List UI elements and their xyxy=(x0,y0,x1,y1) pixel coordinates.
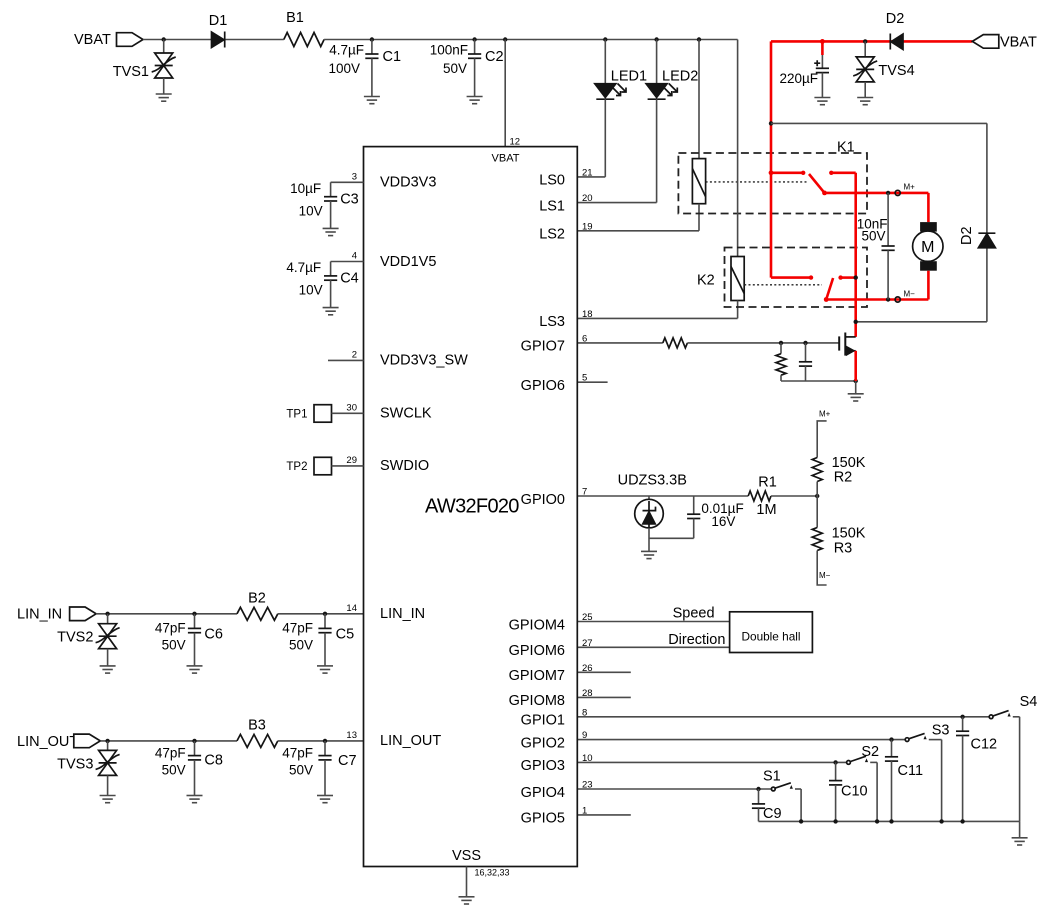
gate capacitor xyxy=(799,343,812,381)
svg-text:VSS: VSS xyxy=(452,848,481,864)
svg-text:VBAT: VBAT xyxy=(1000,35,1037,51)
net label M- (motor) xyxy=(904,289,916,298)
svg-text:26: 26 xyxy=(582,663,593,674)
LED LED2 xyxy=(646,40,698,203)
wire LS0 pin21 xyxy=(577,176,605,178)
wire RC to source xyxy=(781,379,858,383)
svg-text:Direction: Direction xyxy=(668,632,725,648)
svg-text:10: 10 xyxy=(582,753,593,764)
svg-text:19: 19 xyxy=(582,221,593,232)
svg-text:47pF: 47pF xyxy=(155,621,186,636)
wire GPIO1 pin8 xyxy=(577,715,988,719)
svg-text:Speed: Speed xyxy=(673,606,715,622)
svg-text:LIN_IN: LIN_IN xyxy=(17,607,62,623)
svg-text:VDD3V3_SW: VDD3V3_SW xyxy=(380,353,468,369)
svg-text:D1: D1 xyxy=(209,13,228,29)
gate resistor xyxy=(663,338,688,348)
svg-text:12: 12 xyxy=(510,137,521,148)
svg-text:50V: 50V xyxy=(861,228,885,243)
svg-text:20: 20 xyxy=(582,193,593,204)
svg-text:S2: S2 xyxy=(861,744,879,760)
svg-text:SWCLK: SWCLK xyxy=(380,406,432,422)
svg-text:50V: 50V xyxy=(443,61,467,76)
IC pin VBAT label xyxy=(492,153,520,165)
svg-text:GPIO4: GPIO4 xyxy=(521,785,565,801)
svg-text:AW32F020: AW32F020 xyxy=(425,496,519,518)
wire VDD3V3_SW pin2 stub xyxy=(328,359,364,361)
connector J-VBAT right xyxy=(972,35,1037,51)
svg-text:TVS3: TVS3 xyxy=(57,757,93,773)
Double hall sensor xyxy=(730,612,813,653)
ground (TVS3) xyxy=(100,796,116,803)
svg-text:GPIO2: GPIO2 xyxy=(521,735,565,751)
ground (C4) xyxy=(323,308,339,315)
switch S3 xyxy=(905,723,949,822)
resistor R1 xyxy=(748,475,777,519)
ground (MOSFET) xyxy=(848,394,864,401)
K2 NC contact xyxy=(838,275,858,279)
svg-text:C4: C4 xyxy=(340,271,359,287)
TVS diode TVS1 xyxy=(113,40,176,95)
wire B2 to C5 xyxy=(278,612,364,616)
gate pulldown resistor xyxy=(776,343,786,381)
svg-text:TVS1: TVS1 xyxy=(113,64,149,80)
svg-text:TP1: TP1 xyxy=(286,409,307,421)
IC pin 12 number xyxy=(510,137,521,148)
svg-text:M+: M+ xyxy=(819,410,831,419)
net label LIN_IN xyxy=(17,607,62,623)
svg-text:4.7µF: 4.7µF xyxy=(286,260,321,275)
svg-text:C2: C2 xyxy=(485,49,504,65)
svg-text:Double hall: Double hall xyxy=(741,630,800,644)
IC left pin numbers xyxy=(346,171,357,741)
wire to D2 branch xyxy=(769,121,987,125)
svg-text:6: 6 xyxy=(582,333,587,344)
svg-text:16,32,33: 16,32,33 xyxy=(475,868,510,878)
svg-text:GPIO3: GPIO3 xyxy=(521,758,565,774)
capacitor C3 xyxy=(290,181,363,228)
svg-text:D2: D2 xyxy=(886,11,905,27)
wire gate xyxy=(687,341,839,345)
svg-text:C3: C3 xyxy=(340,191,359,207)
K1 switch arm xyxy=(809,174,827,195)
svg-text:10µF: 10µF xyxy=(290,181,321,196)
K1 output wire to M+ xyxy=(825,190,929,195)
svg-text:M: M xyxy=(921,239,934,256)
ground (rail) xyxy=(1012,838,1028,845)
svg-text:50V: 50V xyxy=(289,763,313,778)
test point TP1 xyxy=(286,405,363,423)
capacitor C12 xyxy=(956,717,997,822)
IC left pin labels xyxy=(380,175,468,750)
svg-text:K2: K2 xyxy=(697,273,715,289)
IC pin VSS label xyxy=(452,848,481,864)
TVS diode TVS3 xyxy=(57,741,119,796)
wire GPIO2 pin9 xyxy=(577,737,904,741)
wire LS3 pin18 xyxy=(577,317,737,319)
wire GPIOM7 pin26 stub xyxy=(577,671,631,673)
svg-text:47pF: 47pF xyxy=(282,621,313,636)
svg-text:LED2: LED2 xyxy=(662,69,698,85)
LED LED1 xyxy=(595,40,647,177)
wire GPIO4 pin23 xyxy=(577,787,771,791)
IC U1 AW32F020 body xyxy=(364,147,578,867)
wire GPIO7 pin6 xyxy=(577,342,663,344)
net label LIN_OUT xyxy=(17,734,78,750)
svg-text:1M: 1M xyxy=(756,502,776,518)
svg-text:GPIOM7: GPIOM7 xyxy=(509,668,565,684)
svg-text:14: 14 xyxy=(346,603,357,614)
svg-text:K1: K1 xyxy=(837,140,855,156)
svg-text:TP2: TP2 xyxy=(286,461,307,473)
capacitor 0.01uF xyxy=(687,496,744,538)
relay K2 box xyxy=(697,248,867,308)
svg-text:2: 2 xyxy=(352,349,357,360)
switch S2 xyxy=(847,744,880,821)
svg-text:C12: C12 xyxy=(971,737,998,753)
svg-text:C5: C5 xyxy=(336,627,355,643)
svg-text:7: 7 xyxy=(582,487,587,498)
svg-text:C10: C10 xyxy=(841,784,868,800)
svg-text:29: 29 xyxy=(346,455,357,466)
svg-text:100V: 100V xyxy=(328,61,360,76)
svg-text:8: 8 xyxy=(582,707,587,718)
svg-text:C11: C11 xyxy=(898,763,924,779)
wire D2 to drain xyxy=(854,320,987,324)
K1 mech link xyxy=(706,181,808,183)
svg-text:150K: 150K xyxy=(832,525,866,541)
svg-text:S1: S1 xyxy=(763,769,781,785)
capacitor 10nF xyxy=(857,193,895,300)
zener UDZS3.3B xyxy=(618,472,687,551)
wire GPIOM6 pin27 xyxy=(577,632,729,648)
wire VSS xyxy=(467,867,510,897)
svg-text:18: 18 xyxy=(582,309,593,320)
resistor R2 xyxy=(812,410,866,497)
red wire to motor top xyxy=(927,193,930,222)
svg-text:LIN_IN: LIN_IN xyxy=(380,606,425,622)
ground (C6) xyxy=(187,666,203,673)
ground (C3) xyxy=(323,228,339,235)
ground (VSS) xyxy=(459,897,475,904)
K1 common contact xyxy=(771,171,805,175)
ground (TVS2) xyxy=(100,666,116,673)
net label M+ (motor) xyxy=(904,183,916,192)
svg-text:150K: 150K xyxy=(832,455,866,471)
capacitor 220uF xyxy=(779,41,829,97)
svg-text:220µF: 220µF xyxy=(779,71,818,86)
ground (C2) xyxy=(467,97,483,104)
svg-text:13: 13 xyxy=(346,730,357,741)
red wire source xyxy=(854,351,857,381)
svg-text:LS2: LS2 xyxy=(539,227,565,243)
capacitor C4 xyxy=(286,260,363,307)
svg-text:C1: C1 xyxy=(383,49,402,65)
svg-text:C9: C9 xyxy=(763,806,782,822)
svg-text:TVS4: TVS4 xyxy=(878,63,914,79)
svg-text:4.7µF: 4.7µF xyxy=(329,43,364,58)
svg-text:47pF: 47pF xyxy=(282,746,313,761)
svg-text:GPIO7: GPIO7 xyxy=(521,339,565,355)
svg-text:S4: S4 xyxy=(1020,694,1038,710)
svg-text:R2: R2 xyxy=(834,470,853,486)
wire LIN_OUT xyxy=(100,739,237,743)
red vertical to relays xyxy=(769,41,814,279)
svg-text:GPIOM6: GPIOM6 xyxy=(509,643,565,659)
red vertical B (drain net) xyxy=(854,173,857,337)
svg-text:GPIO1: GPIO1 xyxy=(521,713,565,729)
capacitor C5 xyxy=(282,614,354,666)
ground (zener) xyxy=(641,551,657,558)
svg-text:4: 4 xyxy=(352,251,357,262)
svg-text:VDD3V3: VDD3V3 xyxy=(380,175,436,191)
svg-text:10V: 10V xyxy=(299,203,323,218)
capacitor C10 xyxy=(829,762,868,821)
capacitor C1 xyxy=(328,40,401,97)
capacitor C7 xyxy=(282,741,356,796)
svg-text:B3: B3 xyxy=(248,718,266,734)
capacitor C11 xyxy=(885,740,923,822)
svg-text:VDD1V5: VDD1V5 xyxy=(380,254,436,270)
ground (TVS4) xyxy=(857,98,873,105)
wire GPIOM4 pin25 xyxy=(577,606,729,622)
ground (220uF) xyxy=(814,98,830,105)
svg-text:3: 3 xyxy=(352,171,357,182)
svg-text:GPIOM4: GPIOM4 xyxy=(509,617,565,633)
svg-text:23: 23 xyxy=(582,780,593,791)
relay K1 coil xyxy=(692,40,705,231)
svg-text:10V: 10V xyxy=(299,283,323,298)
wire LS1 pin20 xyxy=(577,202,656,204)
diode D2 (series) xyxy=(886,11,905,50)
net label VBAT (left) xyxy=(74,32,111,48)
svg-text:VBAT: VBAT xyxy=(74,32,111,48)
svg-text:VBAT: VBAT xyxy=(492,153,520,165)
capacitor C9 xyxy=(752,789,782,822)
svg-text:50V: 50V xyxy=(162,638,186,653)
ferrite bead B3 xyxy=(237,718,278,748)
wire VBAT to pin 12 xyxy=(504,40,506,147)
svg-text:LS3: LS3 xyxy=(539,314,565,330)
ground (TVS1) xyxy=(156,94,172,101)
wire GPIO0 pin7 xyxy=(577,495,748,497)
ferrite bead B1 xyxy=(284,10,324,47)
svg-text:28: 28 xyxy=(582,688,593,699)
svg-text:50V: 50V xyxy=(162,763,186,778)
motor M xyxy=(913,222,943,271)
wire R1 to divider xyxy=(771,494,819,498)
red VBAT rail (top right) xyxy=(771,39,972,44)
diode D2 (flyback) xyxy=(959,123,995,321)
wire source to ground xyxy=(855,381,857,394)
svg-text:D2: D2 xyxy=(959,226,975,245)
ground (C7) xyxy=(317,796,333,803)
K2 mech link xyxy=(744,284,822,286)
svg-text:47pF: 47pF xyxy=(155,746,186,761)
switch ground rail xyxy=(759,819,1020,838)
svg-text:C6: C6 xyxy=(204,627,223,643)
svg-text:M+: M+ xyxy=(904,183,916,192)
connector J-VBAT left xyxy=(117,33,144,47)
svg-text:LED1: LED1 xyxy=(611,69,647,85)
IC right pin labels xyxy=(509,173,565,827)
wire GPIO6 pin5 stub xyxy=(577,381,607,383)
resistor R3 xyxy=(812,496,866,585)
svg-text:LIN_OUT: LIN_OUT xyxy=(17,734,78,750)
svg-text:R1: R1 xyxy=(758,475,777,491)
svg-text:9: 9 xyxy=(582,730,587,741)
ground (C5) xyxy=(317,666,333,673)
svg-text:LIN_OUT: LIN_OUT xyxy=(380,733,441,749)
relay K1 box xyxy=(678,140,867,214)
TVS diode TVS4 xyxy=(853,39,914,97)
svg-text:GPIO5: GPIO5 xyxy=(521,811,565,827)
ferrite bead B2 xyxy=(237,591,278,621)
wire top VBAT rail xyxy=(324,37,737,41)
K1 NC contact xyxy=(829,171,856,175)
svg-text:100nF: 100nF xyxy=(430,43,468,58)
svg-text:GPIO6: GPIO6 xyxy=(521,378,565,394)
svg-text:C8: C8 xyxy=(204,753,223,769)
switch S1 xyxy=(763,769,801,822)
ground (C8) xyxy=(187,796,203,803)
svg-text:30: 30 xyxy=(346,402,357,413)
MOSFET Q1 xyxy=(839,333,856,356)
svg-text:27: 27 xyxy=(582,638,593,649)
svg-text:GPIO0: GPIO0 xyxy=(521,492,565,508)
capacitor C6 xyxy=(155,614,223,666)
svg-text:LS1: LS1 xyxy=(539,198,565,214)
connector J-LIN_OUT xyxy=(74,734,101,748)
svg-text:LS0: LS0 xyxy=(539,173,565,189)
wire GPIO3 pin10 xyxy=(577,760,846,764)
test point TP2 xyxy=(286,457,363,475)
svg-text:S3: S3 xyxy=(932,723,950,739)
svg-text:B2: B2 xyxy=(248,591,266,607)
svg-text:B1: B1 xyxy=(286,10,304,26)
svg-text:50V: 50V xyxy=(289,638,313,653)
red wire motor bottom xyxy=(826,271,928,302)
svg-text:1: 1 xyxy=(582,805,587,816)
TVS diode TVS2 xyxy=(57,614,119,666)
svg-text:M−: M− xyxy=(819,571,831,580)
svg-text:SWDIO: SWDIO xyxy=(380,458,429,474)
svg-text:M−: M− xyxy=(904,289,916,298)
svg-text:UDZS3.3B: UDZS3.3B xyxy=(618,472,687,488)
diode D1 xyxy=(209,13,228,48)
svg-text:R3: R3 xyxy=(834,541,853,557)
svg-text:21: 21 xyxy=(582,167,593,178)
svg-text:C7: C7 xyxy=(338,753,357,769)
capacitor C2 xyxy=(430,40,504,97)
K2 switch arm xyxy=(824,278,833,302)
switch S4 xyxy=(989,694,1037,821)
svg-text:GPIOM8: GPIOM8 xyxy=(509,693,565,709)
relay K2 coil xyxy=(731,40,744,319)
svg-text:25: 25 xyxy=(582,612,593,623)
svg-text:16V: 16V xyxy=(711,514,735,529)
svg-text:TVS2: TVS2 xyxy=(57,630,93,646)
ground (C1) xyxy=(364,97,380,104)
connector J-LIN_IN xyxy=(70,607,97,621)
svg-text:5: 5 xyxy=(582,373,587,384)
wire LS2 pin19 xyxy=(577,230,699,232)
wire GPIOM8 pin28 stub xyxy=(577,696,631,698)
capacitor C8 xyxy=(155,741,223,796)
wire VBAT to D1 xyxy=(143,37,212,41)
wire LIN_IN xyxy=(96,612,237,616)
wire GPIO5 pin1 stub xyxy=(577,814,631,816)
wire zener-cap bottom xyxy=(649,537,694,539)
wire D1 to B1 xyxy=(226,39,284,41)
wire B3 to C7 xyxy=(278,739,364,743)
IC right pin numbers xyxy=(582,167,593,816)
